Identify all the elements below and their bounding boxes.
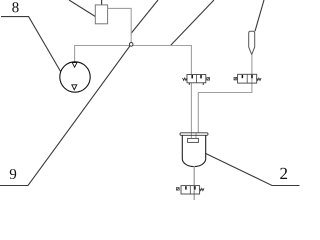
main pipe pump to valve V1	[75, 46, 192, 75]
label 9	[10, 169, 16, 179]
pump flow triangle top	[72, 63, 77, 68]
valve V3 right port bar	[194, 186, 196, 189]
junction node	[129, 43, 133, 47]
leader line (cropped) to nozzle	[255, 0, 264, 31]
leader line (cropped) to component rectangle	[69, 0, 95, 17]
nozzle body	[249, 31, 255, 54]
pump P1 circle	[60, 62, 90, 92]
valve V3 left port bar	[185, 186, 187, 189]
valve V3 spring (right)	[200, 188, 204, 190]
leader line for label 2	[205, 153, 299, 185]
valve V1 port stubs	[188, 83, 190, 85]
valve V3 solenoid (left)	[176, 188, 179, 191]
label 8	[12, 2, 18, 12]
supply stub above component rectangle	[101, 0, 103, 5]
vessel lid flange	[180, 133, 208, 136]
valve V2 right port bar	[251, 75, 253, 78]
leader line (cropped) to horizontal pipe	[171, 0, 215, 46]
valve V2 solenoid (left)	[234, 77, 237, 80]
pipe valve V1 down to vessel	[190, 83, 192, 139]
valve V1 body	[187, 75, 206, 83]
pipe nozzle to valve V2 and to vessel	[198, 55, 252, 133]
valve V1 solenoid (right)	[207, 78, 210, 81]
valve V3 body	[181, 186, 200, 194]
pipe vessel bottom through valve V3	[193, 166, 195, 200]
valve V3 position divider	[189, 186, 191, 194]
leader line for label 9	[0, 45, 131, 186]
vessel body	[182, 135, 205, 166]
component rectangle (tank)	[95, 5, 107, 24]
label 2	[280, 168, 287, 179]
valve V2 body	[238, 74, 257, 83]
valve V1 left port bar	[191, 75, 193, 78]
valve V2 spring (right)	[257, 78, 261, 80]
valve V2 position divider	[246, 74, 248, 83]
pipe stub into vessel box	[195, 133, 197, 139]
valve V1 right port bar	[200, 75, 202, 78]
vessel internal box	[188, 138, 199, 142]
leader line (cropped) to vertical pipe	[131, 0, 158, 34]
valve V1 position divider	[195, 75, 197, 83]
leader line for label 8	[1, 17, 61, 72]
valve V2 left port bar	[241, 75, 243, 78]
pipe from rectangle to junction	[108, 8, 132, 44]
pump flow triangle bottom	[72, 85, 77, 90]
valve V1 spring (left)	[183, 78, 187, 80]
